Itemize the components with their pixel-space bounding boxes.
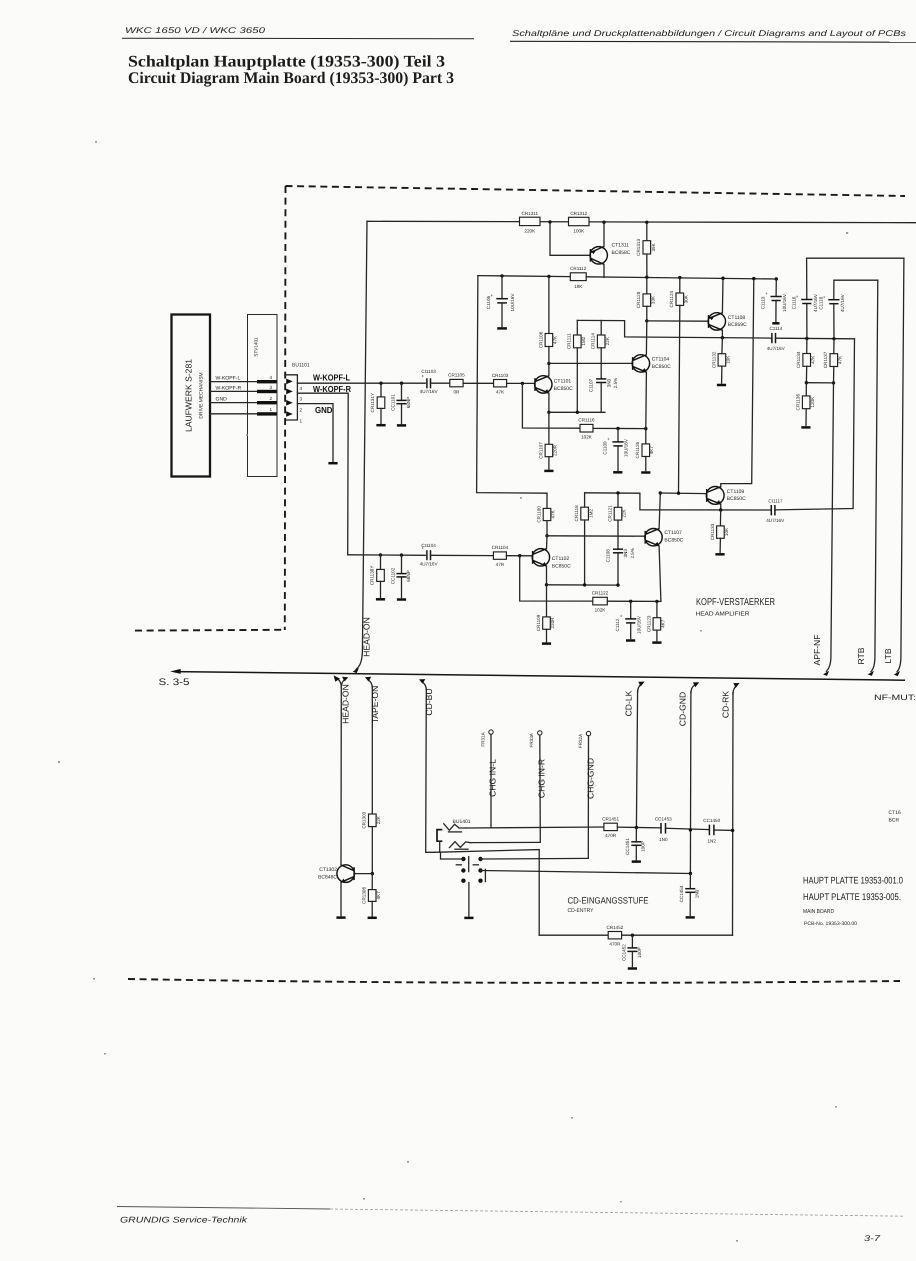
wire CT1102 collector — [546, 536, 549, 549]
wire CT1101 collector — [548, 363, 550, 375]
svg-text:2: 2 — [300, 407, 303, 412]
capacitor CI1112 10U/16V — [615, 601, 641, 638]
svg-text:PCB-No. 19353-300.00: PCB-No. 19353-300.00 — [804, 921, 857, 927]
node junction CD-RK crossing — [731, 829, 734, 832]
svg-text:1M2: 1M2 — [581, 336, 586, 345]
ground (CC1102) — [397, 598, 406, 601]
svg-text:CI1104: CI1104 — [421, 543, 436, 548]
node junction W-KOPF-R / CR1138Y — [379, 553, 382, 556]
svg-text:47K: 47K — [551, 509, 556, 518]
svg-text:CR1303: CR1303 — [362, 811, 367, 828]
BU1101 pin wedge 2 — [286, 400, 293, 406]
dashed border mid-left horizontal — [135, 629, 285, 632]
svg-text:CR1132: CR1132 — [711, 351, 716, 368]
wire LAUFWERK pin W-KOPF-R — [210, 390, 257, 392]
svg-text:3: 3 — [270, 385, 273, 390]
svg-text:CHG IN-L: CHG IN-L — [488, 759, 498, 797]
svg-text:Circuit Diagram Main Board (19: Circuit Diagram Main Board (19353-300) P… — [128, 69, 454, 87]
svg-text:W-KOPF-L: W-KOPF-L — [313, 373, 351, 383]
svg-text:CC1451: CC1451 — [625, 838, 630, 855]
connector STV1401 — [248, 315, 278, 477]
svg-text:CR1114: CR1114 — [591, 333, 596, 350]
svg-text:CD-ENTRY: CD-ENTRY — [568, 908, 594, 914]
wire CR1122 to CT1107 emitter — [607, 600, 661, 602]
resistor CR1118 1M2 — [574, 493, 593, 585]
node junction feedback tap L — [521, 382, 524, 385]
svg-text:68NP: 68NP — [406, 570, 411, 582]
wire jack tip line — [466, 827, 604, 828]
resistor CR1451 470R — [602, 817, 619, 839]
svg-text:GRUNDIG Service-Technik: GRUNDIG Service-Technik — [120, 1215, 248, 1225]
STV1401 contact bar pin 1 — [257, 412, 277, 415]
ground (CR1133) — [715, 553, 724, 556]
svg-text:HEAD-ON: HEAD-ON — [362, 617, 372, 657]
svg-text:1N0: 1N0 — [659, 837, 668, 842]
header right rule — [510, 40, 916, 43]
svg-text:Schaltplan Hauptplatte (19353-: Schaltplan Hauptplatte (19353-300) Teil … — [128, 53, 445, 71]
node junction CT1108 / output L — [721, 336, 724, 339]
wire feedback top L — [577, 320, 771, 338]
svg-text:3: 3 — [300, 396, 303, 401]
wire W-KOPF-R from BU1101 to corner — [297, 393, 348, 555]
wire CHG-GND — [587, 736, 589, 859]
svg-text:BC850C: BC850C — [652, 364, 671, 370]
svg-text:CR1118: CR1118 — [574, 505, 579, 522]
resistor CR1138Y — [370, 555, 385, 597]
svg-text:4U7/16V: 4U7/16V — [840, 293, 845, 312]
svg-text:CT16: CT16 — [889, 810, 901, 816]
svg-text:4U7/16V: 4U7/16V — [767, 346, 786, 351]
switch lever bars — [468, 857, 470, 872]
svg-text:100P: 100P — [637, 947, 642, 958]
ground (CC1454) — [686, 916, 695, 919]
svg-text:BC850C: BC850C — [727, 496, 746, 502]
resistor CR1137 47K — [823, 339, 842, 383]
svg-text:C1114: C1114 — [769, 326, 782, 331]
capacitor CC1451 100P — [625, 828, 646, 860]
svg-text:220K: 220K — [524, 229, 536, 234]
node junction CR1118 bottom — [583, 583, 586, 586]
capacitor CI1117 4U7/16V (series, output R) — [766, 498, 785, 522]
wire CHG IN-R — [539, 735, 542, 842]
svg-text:HAUPT PLATTE 19353-001.0: HAUPT PLATTE 19353-001.0 — [803, 876, 903, 887]
wire CT1109 collector to rail2 — [721, 279, 754, 487]
wire CI1116 top to LTB vertical — [807, 258, 904, 672]
svg-text:C1116: C1116 — [791, 296, 796, 309]
svg-text:BC848C: BC848C — [318, 875, 337, 881]
ground (CR1136) — [801, 426, 810, 429]
svg-text:CI1117: CI1117 — [768, 498, 783, 503]
svg-text:CR1131Y: CR1131Y — [370, 393, 375, 413]
wire LAUFWERK pin 1 — [210, 413, 257, 415]
svg-text:CD-GND: CD-GND — [678, 692, 688, 726]
svg-text:GND: GND — [315, 405, 333, 415]
capacitor CI1107 3N3 2.5% — [589, 378, 619, 413]
wire CD-LK below bus — [638, 684, 642, 692]
ground stub (CI1113) — [772, 322, 779, 325]
svg-text:4K7: 4K7 — [649, 446, 654, 455]
terminal FR31A — [480, 730, 493, 747]
svg-text:CR1313: CR1313 — [636, 239, 641, 256]
svg-text:CR1121: CR1121 — [607, 505, 612, 522]
resistor CR1133 10K — [710, 510, 729, 552]
svg-text:CI1103: CI1103 — [421, 369, 436, 374]
svg-text:C1113: C1113 — [760, 296, 765, 309]
svg-text:CR1105: CR1105 — [448, 373, 465, 378]
resistor CR1121 22K — [607, 493, 626, 548]
wire CT1101 emitter — [548, 393, 550, 412]
STV1401 contact bar pin 2 — [257, 401, 277, 404]
svg-text:102K: 102K — [581, 435, 593, 440]
node junction CD-LK / CC1451 — [635, 826, 638, 829]
wire switch row1 to CHG-GND — [481, 857, 589, 860]
svg-text:CR1103: CR1103 — [492, 373, 509, 378]
svg-text:4U7/16V: 4U7/16V — [420, 389, 439, 394]
svg-text:4K7: 4K7 — [376, 891, 381, 900]
node HEAD-ON supply vertical — [356, 221, 367, 669]
transistor CT1311 BC858C — [590, 243, 631, 265]
svg-text:CR1133: CR1133 — [710, 523, 715, 540]
svg-text:DRIVE MECHANISM: DRIVE MECHANISM — [199, 372, 205, 418]
wire CT1107 collector to CT1109 base line — [659, 493, 660, 529]
resistor CR1116 102K — [578, 418, 595, 440]
svg-text:TAPE-ON: TAPE-ON — [370, 686, 380, 724]
svg-text:10U/16V: 10U/16V — [510, 293, 515, 312]
svg-text:CR1126: CR1126 — [635, 441, 640, 458]
svg-text:47K: 47K — [811, 355, 816, 364]
svg-text:CD-LK: CD-LK — [624, 690, 634, 716]
resistor CR1104 47R — [492, 545, 509, 567]
capacitor CI1109 10U/16V — [602, 429, 628, 471]
svg-text:1N2: 1N2 — [707, 839, 716, 844]
wire sleeve to switch row — [439, 841, 441, 852]
resistor CR1134 47K — [796, 339, 815, 383]
svg-text:100K: 100K — [573, 229, 585, 234]
arrow CD-GND — [693, 682, 699, 687]
node junction mix/CI1118/CR1137 — [832, 337, 835, 340]
svg-text:W-KOPF-R: W-KOPF-R — [216, 385, 242, 391]
svg-text:BU1401: BU1401 — [453, 819, 471, 825]
node junction CR1121 top tap — [616, 491, 619, 494]
svg-text:CR1104: CR1104 — [492, 545, 509, 550]
ground (CC1452) — [628, 967, 637, 970]
svg-text:100P: 100P — [641, 841, 646, 852]
node junction CR1100 / CT1102 collector / CT1107 base — [545, 534, 548, 537]
svg-text:33K: 33K — [650, 295, 655, 304]
svg-text:C1106: C1106 — [486, 295, 491, 309]
wire supply rail2 right segment — [586, 277, 776, 279]
wire switch to ground — [468, 883, 470, 917]
svg-text:CC1453: CC1453 — [655, 816, 672, 821]
svg-text:47K: 47K — [838, 355, 843, 364]
arrow CD-RK — [733, 683, 739, 688]
svg-text:CR1100: CR1100 — [536, 506, 541, 523]
svg-text:BC850C: BC850C — [664, 537, 683, 543]
wire CT1104 collector — [645, 321, 647, 355]
svg-text:1M2: 1M2 — [588, 508, 593, 517]
wire LAUFWERK pin W-KOPF-L — [210, 381, 257, 383]
resistor CR1136 120K — [796, 383, 815, 426]
node junction CT1101 collector / CT1104 base — [547, 362, 550, 365]
node junction CC1454 top — [689, 872, 692, 875]
node junction W-KOPF-R / CC1102 — [400, 553, 403, 556]
svg-text:HEAD-ON: HEAD-ON — [340, 684, 350, 724]
svg-text:CT1101: CT1101 — [554, 379, 572, 385]
svg-text:CD-RK: CD-RK — [720, 691, 730, 718]
svg-text:APF-NF: APF-NF — [812, 634, 822, 665]
wire LAUFWERK pin GND — [210, 402, 257, 404]
STV1401 contact bar pin 4 — [257, 380, 277, 383]
wire top supply rail — [367, 221, 916, 222]
header left rule — [122, 37, 474, 40]
svg-text:CR1116: CR1116 — [578, 418, 595, 423]
svg-text:CR1124: CR1124 — [669, 290, 674, 307]
resistor CR1111 1M2 — [567, 320, 586, 412]
resistor CR1306 4K7 — [362, 874, 381, 916]
svg-text:CT1311: CT1311 — [612, 243, 630, 249]
wire ring to CHG IN-R riser — [470, 841, 540, 843]
svg-text:C1108: C1108 — [605, 549, 610, 563]
svg-text:CC1452: CC1452 — [621, 944, 626, 961]
svg-text:47K: 47K — [496, 390, 505, 395]
capacitor CI1118 4U7/16V — [818, 280, 844, 339]
svg-text:CR1306: CR1306 — [362, 887, 367, 904]
connector BU1101 bracket — [286, 375, 298, 420]
ground (CC1451) — [632, 860, 641, 863]
svg-text:+: + — [620, 614, 623, 619]
svg-text:RTB: RTB — [856, 647, 866, 664]
svg-text:120K: 120K — [810, 396, 815, 408]
svg-text:CR1134: CR1134 — [796, 351, 801, 368]
node junction CR1137 bottom / APF-NF — [832, 381, 835, 384]
resistor CR1452 470R — [606, 925, 623, 947]
svg-text:BCR: BCR — [889, 818, 900, 824]
svg-text:FR32A: FR32A — [578, 733, 583, 748]
wire CT1104 emitter — [645, 372, 648, 428]
BU1101 pin wedge 4 — [286, 379, 293, 385]
wire CR1451 to CC1453 — [617, 826, 661, 829]
BU1101 pin wedge 1 — [286, 411, 293, 417]
svg-text:18K: 18K — [574, 284, 583, 289]
resistor CR1124 30K — [669, 276, 688, 493]
wire CT1302 emitter to ground — [340, 882, 342, 915]
arrow APF-NF to bus — [823, 671, 829, 676]
wire bottom loop left segment — [539, 934, 608, 936]
svg-text:CR1122: CR1122 — [592, 591, 609, 596]
arrow LTB to bus — [894, 671, 900, 676]
svg-text:10U/16V: 10U/16V — [636, 615, 641, 634]
wire CD-BU below bus — [422, 682, 426, 690]
arrow CD-BU — [419, 679, 425, 684]
resistor CR1109 220R — [536, 585, 555, 642]
svg-text:CC1101: CC1101 — [390, 394, 395, 411]
capacitor CI1103 4U7/16V (series) — [420, 369, 439, 394]
wire feedback drop R — [520, 556, 593, 601]
capacitor CC1101 68NP — [390, 383, 411, 423]
wire CT1311 base — [550, 222, 590, 255]
svg-text:2: 2 — [270, 396, 273, 401]
BU1101 pin wedge 3 — [286, 389, 293, 395]
node junction rail1/CR1313 — [645, 221, 648, 224]
svg-text:W-KOPF-L: W-KOPF-L — [216, 376, 241, 382]
svg-text:C1112: C1112 — [615, 618, 620, 631]
capacitor CC1453 1N0 (series) — [655, 816, 672, 842]
wire CR1105 to CR1103 — [463, 382, 494, 384]
ground (CR1126) — [641, 471, 650, 474]
capacitor CI1114 4U7/16V (series, output L) — [767, 326, 786, 351]
resistor CR1123 4K7 — [646, 601, 665, 640]
svg-text:KOPF-VERSTAERKER: KOPF-VERSTAERKER — [696, 597, 775, 608]
capacitor CI1116 4U7/16V — [791, 258, 817, 338]
resistor CR1100 47K — [536, 506, 555, 536]
svg-text:CHG IN-R: CHG IN-R — [537, 759, 547, 798]
wire CR1116 to CR1126 node — [593, 427, 646, 429]
ground (CR1306) — [368, 917, 377, 920]
resistor CR1132 10K — [711, 338, 730, 383]
node junction CR1134 bottom — [805, 381, 808, 384]
svg-text:470R: 470R — [605, 833, 617, 838]
scanner specks — [58, 141, 848, 1242]
svg-text:220R: 220R — [553, 444, 558, 456]
ground (CR1107) — [544, 470, 553, 473]
ground (CI1109) — [613, 471, 622, 474]
node junction CT1101 emitter — [547, 411, 550, 414]
svg-text:WKC 1650 VD / WKC 3650: WKC 1650 VD / WKC 3650 — [125, 25, 266, 35]
ground (CI1112) — [626, 639, 635, 642]
capacitor CC1454 1N0 — [679, 874, 700, 916]
terminal FR32A — [578, 731, 591, 748]
transistor CT1101 BC850C — [535, 376, 573, 394]
svg-text:CR1106: CR1106 — [538, 331, 543, 348]
wire W-KOPF-L from BU1101 — [297, 382, 425, 384]
svg-text:CT1102: CT1102 — [552, 556, 570, 562]
arrow RTB to bus — [868, 671, 874, 676]
svg-text:10K: 10K — [724, 527, 729, 536]
svg-text:10U/16V: 10U/16V — [624, 438, 629, 457]
svg-text:3N3: 3N3 — [623, 549, 628, 558]
transistor CT1109 BC850C — [706, 487, 746, 505]
svg-text:47R: 47R — [496, 562, 505, 567]
resistor CR1107 220R — [538, 412, 557, 469]
svg-text:NF-MUT:: NF-MUT: — [874, 693, 916, 702]
wire GND from BU1101 — [297, 404, 333, 462]
resistor CR1128 33K — [636, 276, 655, 321]
svg-text:30K: 30K — [683, 294, 688, 303]
arrow HEAD-ON to bus — [353, 668, 359, 673]
svg-text:CR1107: CR1107 — [538, 442, 543, 459]
resistor CR1122 102K — [592, 591, 609, 613]
svg-text:HEAD AMPLIFIER: HEAD AMPLIFIER — [696, 612, 750, 618]
svg-text:2.5%: 2.5% — [630, 548, 635, 558]
wire switch top-left dot to sleeve line — [441, 852, 464, 859]
node junction mix/CI1116/CR1134 — [805, 337, 808, 340]
ground (CT1302) — [336, 916, 345, 919]
wire CT1109 base line — [660, 492, 706, 495]
wire W-KOPF-R channel input line — [348, 554, 426, 557]
ground (C1106) — [497, 327, 507, 330]
svg-text:4: 4 — [300, 386, 303, 391]
wire APF-NF vertical to bus — [826, 383, 833, 672]
svg-text:3N3: 3N3 — [606, 378, 611, 387]
svg-text:CC1454: CC1454 — [679, 885, 684, 902]
arrow HEAD-ON fork left — [338, 679, 342, 687]
svg-text:10U/16V: 10U/16V — [782, 293, 787, 312]
wire feedback top R — [585, 493, 771, 510]
capacitor C1106 10U/16V (rail2 decoupling) — [486, 274, 515, 326]
transistor CT1104 BC850C — [632, 355, 671, 373]
resistor CR1112 18K — [570, 266, 587, 289]
resistor CR1103 47K — [492, 373, 509, 395]
svg-text:CT1109: CT1109 — [727, 489, 745, 495]
wire CR1104 to CT1102 base — [506, 555, 532, 557]
wire CC1453 to CC1450 — [666, 828, 710, 829]
svg-text:+: + — [491, 293, 494, 298]
ground (CR1131Y) — [376, 424, 385, 427]
resistor CR1303 22K — [362, 811, 381, 873]
svg-text:4U7/16V: 4U7/16V — [420, 561, 439, 566]
svg-text:CT1107: CT1107 — [664, 530, 682, 536]
wire CT1109 emitter — [720, 504, 722, 510]
svg-text:LAUFWERK S-281: LAUFWERK S-281 — [184, 359, 194, 432]
svg-text:GND: GND — [216, 396, 228, 402]
svg-text:CT1302: CT1302 — [319, 867, 337, 873]
svg-text:10K: 10K — [726, 355, 731, 364]
STV1401 contact bar pin 3 — [257, 390, 277, 393]
arrow TAPE-ON — [365, 677, 371, 682]
svg-text:CR1123: CR1123 — [646, 615, 651, 632]
svg-text:CT1108: CT1108 — [728, 315, 746, 321]
svg-text:C1107: C1107 — [589, 378, 594, 392]
svg-text:C1109: C1109 — [602, 441, 607, 455]
svg-text:22K: 22K — [622, 508, 627, 517]
wire CI1103 to CR1105 — [431, 382, 450, 384]
svg-text:CR1136: CR1136 — [796, 393, 801, 410]
wire CR1103 to CT1101 base — [507, 382, 535, 384]
wire CHG IN-L — [490, 734, 492, 827]
wire CD-RK below bus — [733, 686, 737, 694]
node junction CT1107 collector — [659, 491, 662, 494]
svg-text:S. 3-5: S. 3-5 — [159, 677, 190, 688]
svg-text:CD-EINGANGSSTUFE: CD-EINGANGSSTUFE — [568, 896, 649, 906]
svg-text:LTB: LTB — [883, 648, 893, 663]
wire rail2 corner down to CR1100 feed — [477, 276, 547, 509]
wire CT1107 base line — [547, 535, 645, 537]
wire supply rail2 left segment — [478, 276, 570, 277]
node junction CT1102 emitter — [545, 583, 548, 586]
node junction CR1126 top / CT1104 emitter — [644, 427, 647, 430]
node junction CR1123 top — [655, 600, 658, 603]
svg-text:22K: 22K — [605, 336, 610, 345]
svg-text:CR1137: CR1137 — [823, 351, 828, 368]
svg-text:BC858C: BC858C — [612, 250, 631, 256]
wire CT1311 emitter to rail1 — [603, 222, 605, 246]
jack BU1401 sleeve bracket — [437, 830, 442, 842]
svg-text:2.5%: 2.5% — [613, 378, 618, 388]
resistor CR1114 22K — [591, 321, 610, 378]
switch contact dots BU1401 — [461, 857, 465, 861]
node junction feedback tap R — [518, 554, 521, 557]
svg-text:CC1102: CC1102 — [390, 567, 395, 584]
ground (BU1101 GND) — [328, 462, 337, 465]
svg-text:C1118: C1118 — [818, 296, 823, 309]
capacitor CI1108 3N3 2.5% — [605, 548, 635, 585]
svg-text:CR1452: CR1452 — [606, 925, 623, 930]
transistor CT1302 BC848C — [318, 865, 354, 883]
wire CT1108 base line — [647, 320, 708, 322]
wire CT1108 collector to output line — [721, 330, 723, 338]
svg-text:BC850C: BC850C — [554, 386, 573, 392]
wire CT1102 emitter — [546, 566, 548, 585]
